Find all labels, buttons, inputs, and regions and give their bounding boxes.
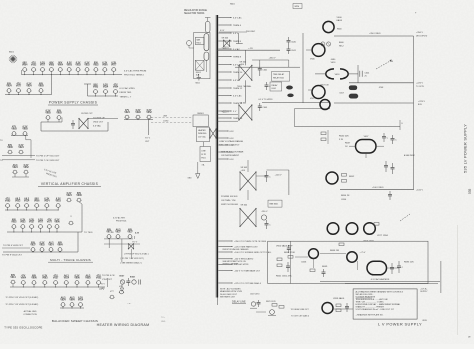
svg-text:V652: V652 <box>146 112 152 114</box>
svg-text:V600 CKT: V600 CKT <box>93 122 104 124</box>
svg-text:( SEE WIRING DIAG 2 ): ( SEE WIRING DIAG 2 ) <box>120 261 142 264</box>
svg-text:V606: V606 <box>74 278 80 280</box>
svg-text:6.3 V AC: 6.3 V AC <box>233 94 242 97</box>
svg-text:WFM: WFM <box>295 6 300 8</box>
svg-text:RESISTOR VALUES CHANGED: RESISTOR VALUES CHANGED <box>223 248 250 251</box>
svg-text:6.3 V AC HTR: 6.3 V AC HTR <box>113 217 126 220</box>
svg-text:V664: V664 <box>57 244 63 247</box>
svg-text:SW601: SW601 <box>197 113 204 115</box>
svg-text:V693: V693 <box>67 65 73 67</box>
svg-text:TO: TO <box>0 160 3 162</box>
svg-text:CKT: CKT <box>145 141 150 143</box>
svg-text:TO PIN 4 OF: TO PIN 4 OF <box>102 275 115 277</box>
svg-text:HEATER WIRING DIAGRAM: HEATER WIRING DIAGRAM <box>97 323 150 327</box>
svg-text:V624: V624 <box>103 86 109 89</box>
svg-text:V652: V652 <box>15 201 21 203</box>
svg-text:470K: 470K <box>379 87 384 89</box>
svg-text:TO DELAY LINE CKT: TO DELAY LINE CKT <box>291 308 310 311</box>
svg-text:TO PIN 9 V604 CKT: TO PIN 9 V604 CKT <box>2 255 22 257</box>
svg-text:SEE PLATE ON REAR: SEE PLATE ON REAR <box>221 150 244 153</box>
svg-text:+ 415: + 415 <box>248 48 253 50</box>
svg-text:6.3 V: 6.3 V <box>233 33 239 35</box>
svg-text:R601: R601 <box>196 42 201 44</box>
svg-text:+225 V: +225 V <box>416 83 424 85</box>
svg-text:FLTR: FLTR <box>201 154 206 156</box>
svg-text:LINE VOLTAGE RANGE: LINE VOLTAGE RANGE <box>219 140 243 143</box>
svg-text:REGULATOR RANGE: REGULATOR RANGE <box>184 9 207 12</box>
svg-text:RELAY K601: RELAY K601 <box>273 77 284 80</box>
svg-text:V693: V693 <box>135 112 141 114</box>
svg-text:+100 V: +100 V <box>275 175 283 177</box>
svg-text:V693: V693 <box>45 113 51 115</box>
svg-text:V652: V652 <box>84 65 90 67</box>
svg-text:V652 6AU6 AMP: V652 6AU6 AMP <box>276 245 293 248</box>
svg-text:R670 C670: R670 C670 <box>266 301 276 303</box>
svg-text:-150 V TO TIME BASE CKT: -150 V TO TIME BASE CKT <box>234 269 261 272</box>
svg-text:TO V: TO V <box>145 138 151 140</box>
svg-text:V637: V637 <box>30 245 36 247</box>
svg-text:V652: V652 <box>75 65 81 67</box>
svg-text:V693: V693 <box>85 278 91 280</box>
svg-text:6.3V: 6.3V <box>230 138 235 140</box>
svg-text:V606: V606 <box>7 147 13 149</box>
svg-text:SR 604: SR 604 <box>241 205 249 207</box>
svg-text:SEE PARTS LIST: SEE PARTS LIST <box>220 295 236 298</box>
svg-text:6.3 VAC: 6.3 VAC <box>93 125 101 128</box>
svg-text:WINDING: WINDING <box>198 133 207 135</box>
svg-text:TERM 10: TERM 10 <box>233 72 243 74</box>
svg-text:V652: V652 <box>31 65 37 67</box>
svg-text:- = -: - = - <box>128 303 132 305</box>
svg-text:( TO PIN 7 OF V528 CKT ): ( TO PIN 7 OF V528 CKT ) <box>120 258 144 260</box>
svg-text:SWITCH SW 660: SWITCH SW 660 <box>221 204 239 206</box>
svg-text:+350 V TO PLATE CKTS OF V600: +350 V TO PLATE CKTS OF V600 <box>234 240 267 243</box>
svg-text:VERTICAL AMPLIFIER CHASSIS: VERTICAL AMPLIFIER CHASSIS <box>41 182 99 186</box>
svg-text:B601: B601 <box>9 52 15 54</box>
svg-text:-150 V: -150 V <box>261 211 268 213</box>
svg-text:TRIGGERING MODE ........ AUTO: TRIGGERING MODE ........ AUTO HF <box>356 298 389 301</box>
svg-text:V652: V652 <box>93 65 99 67</box>
svg-text:V637: V637 <box>127 232 133 234</box>
svg-text:NOTE : ALL VOLTAGES: NOTE : ALL VOLTAGES <box>220 288 241 291</box>
svg-text:A SEE WFM: A SEE WFM <box>404 154 415 157</box>
svg-text:MULTI - TRACE CHASSIS: MULTI - TRACE CHASSIS <box>50 258 91 262</box>
svg-text:V693: V693 <box>42 278 48 280</box>
svg-text:6.3 V AC HTRS: 6.3 V AC HTRS <box>120 87 136 90</box>
svg-text:V677: V677 <box>40 65 46 67</box>
svg-text:( HTRS OF V152 6.3 VAC ): ( HTRS OF V152 6.3 VAC ) <box>124 253 149 256</box>
svg-text:+225 V SEE PARTS LIST: +225 V SEE PARTS LIST <box>234 245 258 248</box>
svg-text:V677: V677 <box>38 222 44 224</box>
svg-text:V677: V677 <box>106 232 112 234</box>
svg-text:R693 10K: R693 10K <box>404 261 414 263</box>
svg-text:TO PIN 4 V628 CKT: TO PIN 4 V628 CKT <box>3 245 23 247</box>
svg-text:V664: V664 <box>58 64 64 67</box>
svg-text:V624: V624 <box>12 166 18 169</box>
svg-text:V624: V624 <box>44 200 50 203</box>
svg-text:V614: V614 <box>64 277 70 280</box>
svg-text:V614: V614 <box>10 276 16 279</box>
svg-text:TO CRT CKT DIAG 4: TO CRT CKT DIAG 4 <box>291 315 309 318</box>
svg-text:TO PIN 2 OF V514 CKT (6.3VAC): TO PIN 2 OF V514 CKT (6.3VAC) <box>5 296 38 299</box>
svg-text:L V POWER SUPPLY: L V POWER SUPPLY <box>378 322 422 327</box>
svg-text:FROM T601: FROM T601 <box>120 92 133 94</box>
svg-text:DECOUPLED: DECOUPLED <box>416 36 428 38</box>
svg-text:R637: R637 <box>345 143 351 145</box>
svg-text:+350 V: +350 V <box>416 32 424 34</box>
svg-text:TERM 4: TERM 4 <box>233 25 242 27</box>
svg-text:ALL READINGS WERE OBTAINED WI: ALL READINGS WERE OBTAINED WITH CONTROLS <box>356 290 404 293</box>
svg-text:6.3V: 6.3V <box>230 131 235 133</box>
svg-text:CONNECTION: CONNECTION <box>23 314 37 316</box>
svg-text:V693: V693 <box>22 129 28 131</box>
svg-text:RELAY: RELAY <box>272 84 279 87</box>
svg-text:TERM 6: TERM 6 <box>233 41 242 43</box>
svg-text:105 - 125 V SELECT: 105 - 125 V SELECT <box>219 145 240 147</box>
svg-text:V624: V624 <box>335 74 341 76</box>
svg-text:V652: V652 <box>11 222 17 224</box>
svg-text:V624: V624 <box>66 194 72 197</box>
svg-text:+225 V TO CRT SEE DIAG 4: +225 V TO CRT SEE DIAG 4 <box>234 282 262 285</box>
svg-text:V637: V637 <box>53 278 59 280</box>
svg-text:V693 6AU6: V693 6AU6 <box>333 297 345 300</box>
svg-text:V652: V652 <box>56 201 62 203</box>
svg-text:R640 20K: R640 20K <box>339 136 349 138</box>
svg-text:V624: V624 <box>18 146 24 149</box>
svg-text:V624: V624 <box>6 85 12 88</box>
svg-text:DELAY LINE: DELAY LINE <box>232 300 246 303</box>
svg-text:R600: R600 <box>337 29 342 31</box>
svg-text:V693: V693 <box>93 87 99 89</box>
svg-text:V664: V664 <box>22 64 28 67</box>
svg-text:+225 V: +225 V <box>418 101 426 103</box>
svg-text:C656: C656 <box>301 262 307 264</box>
svg-text:SUPPLY: SUPPLY <box>420 291 428 293</box>
svg-text:V693: V693 <box>11 129 17 131</box>
svg-text:V677: V677 <box>111 65 117 67</box>
svg-text:S601: S601 <box>195 83 199 85</box>
svg-text:VAR: VAR <box>196 38 200 41</box>
svg-text:5 V: 5 V <box>233 111 237 113</box>
svg-text:V606: V606 <box>34 201 40 203</box>
svg-text:R649: R649 <box>322 266 328 268</box>
svg-text:V614: V614 <box>48 244 54 247</box>
svg-text:R661 C661 47K: R661 C661 47K <box>276 275 292 277</box>
svg-text:ACTUAL GND: ACTUAL GND <box>24 310 37 313</box>
svg-text:TO PIN 2 OF V514 CKT: TO PIN 2 OF V514 CKT <box>36 155 60 157</box>
svg-text:V614: V614 <box>24 200 30 203</box>
svg-text:R652: R652 <box>349 176 355 178</box>
svg-text:V600: V600 <box>337 17 343 19</box>
svg-text:V606: V606 <box>102 65 108 67</box>
svg-text:TO: TO <box>0 140 3 142</box>
svg-text:6AU6: 6AU6 <box>337 19 343 22</box>
svg-text:POWER SW 601: POWER SW 601 <box>221 196 238 198</box>
svg-text:V637: V637 <box>29 222 35 224</box>
svg-text:T601 SEC: T601 SEC <box>246 31 256 33</box>
svg-text:+100 V BUS: +100 V BUS <box>372 187 384 189</box>
svg-text:K601: K601 <box>272 88 276 90</box>
svg-text:SR 601: SR 601 <box>240 62 248 64</box>
svg-text:FAN B601: FAN B601 <box>270 203 279 206</box>
svg-text:C654: C654 <box>341 199 347 201</box>
svg-text:F601: F601 <box>196 72 202 74</box>
svg-text:FROM T601: FROM T601 <box>116 221 126 223</box>
svg-text:TERM 6 + 7: TERM 6 + 7 <box>120 97 133 99</box>
svg-text:V652: V652 <box>20 222 26 224</box>
svg-text:VOLTS READINGS IN mV .. LINE: VOLTS READINGS IN mV .. LINE VOLT 117 <box>356 308 394 311</box>
svg-text:SELECTOR SW601: SELECTOR SW601 <box>184 13 205 15</box>
svg-text:TIME DELAY: TIME DELAY <box>273 73 285 76</box>
svg-text:GND: GND <box>161 321 166 323</box>
svg-text:6.3 V TO HTRS: 6.3 V TO HTRS <box>259 99 274 101</box>
svg-text:R656 270K: R656 270K <box>284 252 295 254</box>
svg-text:SR 602: SR 602 <box>240 102 248 104</box>
svg-text:WIRING DIAGRAM: WIRING DIAGRAM <box>223 263 239 266</box>
svg-text:V693: V693 <box>49 65 55 67</box>
svg-text:V624: V624 <box>26 85 32 88</box>
svg-text:V624: V624 <box>60 299 66 302</box>
svg-text:TK601 THERMAL: TK601 THERMAL <box>237 85 251 88</box>
svg-text:+100 V: +100 V <box>416 190 424 192</box>
svg-text:6.3V: 6.3V <box>135 233 140 235</box>
svg-text:R666 1M: R666 1M <box>330 250 339 252</box>
svg-text:PIN 9 T601 TERM 4: PIN 9 T601 TERM 4 <box>124 75 144 77</box>
svg-text:V606: V606 <box>76 195 82 197</box>
svg-text:TO V: TO V <box>99 289 105 291</box>
svg-text:+350 V: +350 V <box>222 48 230 50</box>
svg-text:6.3 V AC HEATERS: 6.3 V AC HEATERS <box>371 278 390 281</box>
svg-text:V606: V606 <box>54 222 60 224</box>
svg-text:FILTER CKT: FILTER CKT <box>81 113 93 115</box>
svg-text:V693: V693 <box>38 86 44 88</box>
svg-text:OF INSTRUMENT: OF INSTRUMENT <box>221 155 240 157</box>
svg-text:V637: V637 <box>115 232 121 234</box>
svg-text:V693: V693 <box>5 201 11 203</box>
svg-text:V637: V637 <box>364 136 370 138</box>
svg-text:V664: V664 <box>69 299 75 302</box>
svg-text:6.3V: 6.3V <box>230 159 235 161</box>
svg-text:+350 V: +350 V <box>269 58 277 60</box>
svg-text:V693: V693 <box>56 113 62 115</box>
svg-text:TO PIN 7 OF V528 CKT: TO PIN 7 OF V528 CKT <box>36 160 60 162</box>
svg-text:+ READINGS WITH PLATE NO.: + READINGS WITH PLATE NO. <box>356 313 384 316</box>
svg-text:SET AS FOLLOWS :: SET AS FOLLOWS : <box>356 293 374 296</box>
svg-text:STABILITY ...................: STABILITY ................... PRESET <box>356 306 385 309</box>
svg-text:SR 606: SR 606 <box>222 38 230 40</box>
svg-text:SR 603: SR 603 <box>241 167 249 169</box>
svg-text:V664: V664 <box>113 86 119 89</box>
svg-text:V614: V614 <box>78 299 84 302</box>
svg-text:TERM 8: TERM 8 <box>233 56 242 58</box>
svg-text:TO CKTS: TO CKTS <box>416 86 425 88</box>
svg-text:+225 V: +225 V <box>222 112 230 114</box>
svg-text:MEASURED WITH VTVM: MEASURED WITH VTVM <box>220 290 242 293</box>
svg-text:POWER SUPPLY CHASSIS: POWER SUPPLY CHASSIS <box>49 101 98 105</box>
svg-text:115 V AC: 115 V AC <box>198 135 206 138</box>
svg-text:TO V: TO V <box>132 242 138 244</box>
svg-text:6.3 V AC HTRS FROM: 6.3 V AC HTRS FROM <box>124 70 146 73</box>
svg-text:V652: V652 <box>39 245 45 247</box>
svg-text:TERM 12: TERM 12 <box>233 88 243 90</box>
svg-text:+ 75 V: + 75 V <box>360 252 367 254</box>
svg-text:V677 12B4: V677 12B4 <box>377 235 389 237</box>
svg-text:R607 10K: R607 10K <box>320 84 329 86</box>
svg-text:+100 V TO SCREEN GRID CKT TO: +100 V TO SCREEN GRID CKT TO ALL <box>234 251 272 254</box>
svg-text:ON TIME / CM: ON TIME / CM <box>221 200 235 202</box>
svg-text:V652: V652 <box>23 167 29 169</box>
svg-text:V664: V664 <box>21 277 27 280</box>
svg-text:LINE: LINE <box>201 150 206 152</box>
svg-text:GND: GND <box>188 177 193 179</box>
svg-text:V606: V606 <box>31 278 37 280</box>
svg-text:6.3 V AC: 6.3 V AC <box>233 16 242 19</box>
svg-text:V677: V677 <box>47 222 53 224</box>
svg-text:TO PIN 7 OF V528 CKT (6.3VAC): TO PIN 7 OF V528 CKT (6.3VAC) <box>5 303 38 306</box>
svg-text:V677: V677 <box>16 86 22 88</box>
svg-text:HEATER: HEATER <box>198 129 206 132</box>
svg-text:535 LV POWER SUPPLY: 535 LV POWER SUPPLY <box>463 124 468 173</box>
svg-text:535: 535 <box>468 188 472 194</box>
svg-text:TYPE 535 OSCILLOSCOPE: TYPE 535 OSCILLOSCOPE <box>4 325 42 329</box>
svg-text:TERM 16: TERM 16 <box>233 118 243 120</box>
svg-text:6.3 V: 6.3 V <box>233 80 239 82</box>
svg-text:V624: V624 <box>124 111 130 114</box>
svg-text:TO T601: TO T601 <box>84 232 93 234</box>
svg-text:HORIZONTAL DISPLAY ... MAIN S: HORIZONTAL DISPLAY ... MAIN SWEEP NORMAL <box>356 303 402 306</box>
svg-text:R654 2K: R654 2K <box>341 195 350 197</box>
svg-text:CORD: CORD <box>163 120 169 122</box>
svg-text:+350 V BUS: +350 V BUS <box>369 33 381 35</box>
svg-text:C672 L670: C672 L670 <box>250 293 259 295</box>
svg-text:F601: F601 <box>201 158 205 160</box>
svg-text:BALANCED SWEEP CHASSIS: BALANCED SWEEP CHASSIS <box>52 319 98 323</box>
